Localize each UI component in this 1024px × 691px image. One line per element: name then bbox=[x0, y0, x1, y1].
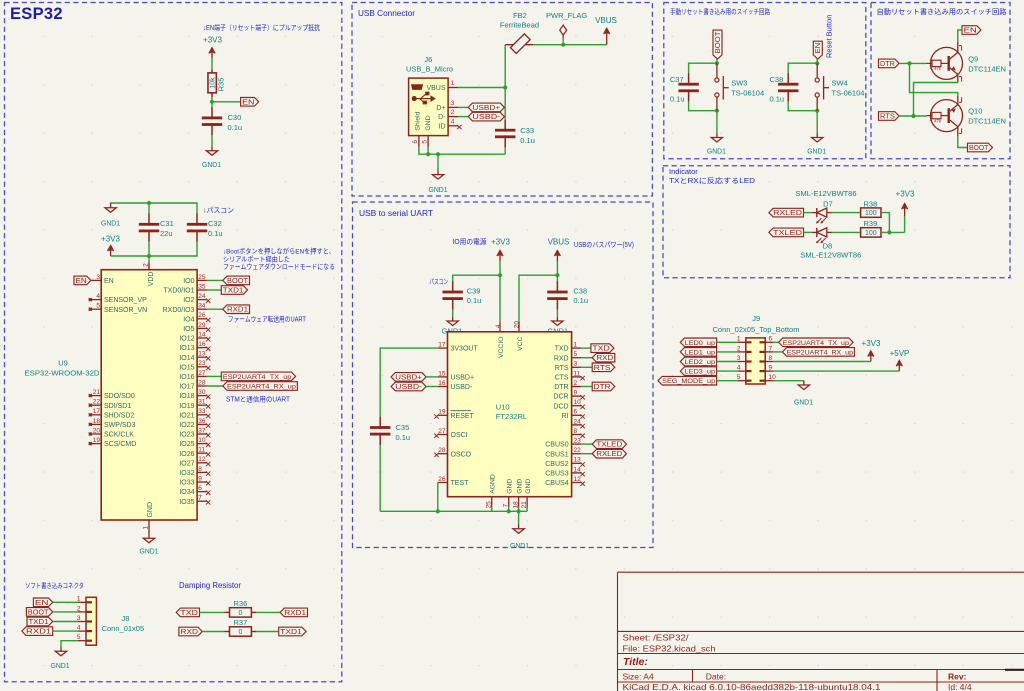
svg-text:13: 13 bbox=[198, 351, 206, 358]
U9 pin 35 TXD0/IO1 bbox=[197, 289, 207, 291]
svg-text:47k: 47k bbox=[934, 118, 942, 123]
svg-text:28: 28 bbox=[438, 447, 446, 454]
svg-text:LED1_up: LED1_up bbox=[685, 349, 716, 356]
J6 usb trident icon bbox=[412, 92, 435, 104]
capacitor C37 0.1u bbox=[688, 73, 690, 85]
svg-text:0.1u: 0.1u bbox=[467, 296, 482, 305]
title block page edge mark bbox=[1005, 669, 1024, 671]
svg-text:J6: J6 bbox=[424, 55, 432, 64]
U9 pin 33 IO21 bbox=[197, 414, 207, 416]
svg-text:1: 1 bbox=[574, 342, 578, 349]
svg-text:CTS: CTS bbox=[555, 375, 569, 382]
svg-text:D7: D7 bbox=[823, 199, 833, 208]
wire RXLED bbox=[581, 453, 592, 455]
svg-text:U10: U10 bbox=[496, 403, 510, 412]
capacitor C38 0.1u bbox=[787, 73, 789, 85]
U9 pin 10 IO25 bbox=[197, 443, 207, 445]
svg-text:EN: EN bbox=[964, 28, 977, 35]
ground GND1 (C30) bbox=[211, 147, 213, 151]
J8 pin 5 bbox=[78, 640, 86, 642]
svg-text:BOOT: BOOT bbox=[28, 609, 49, 616]
svg-text:CBUS4: CBUS4 bbox=[545, 480, 568, 487]
svg-text:Date:: Date: bbox=[706, 672, 726, 682]
wire J8 pin5 to ground bbox=[61, 641, 78, 647]
svg-text:Q10: Q10 bbox=[968, 107, 982, 116]
svg-text:Title:: Title: bbox=[623, 656, 648, 668]
J8 pin 1 bbox=[78, 601, 86, 603]
svg-text:IO用の電源: IO用の電源 bbox=[453, 237, 487, 246]
section box manual reset switch bbox=[664, 3, 866, 159]
svg-text:10: 10 bbox=[198, 437, 206, 444]
capacitor C30 0.1u bbox=[211, 102, 213, 107]
wire IO0 to BOOT bbox=[207, 279, 223, 281]
svg-text:C38: C38 bbox=[770, 75, 784, 84]
svg-text:RXD1: RXD1 bbox=[284, 610, 306, 617]
ground GND1 (C39) bbox=[452, 317, 454, 321]
svg-text:RXD: RXD bbox=[554, 355, 569, 362]
node indicator junction bbox=[887, 230, 891, 234]
svg-text:TXD: TXD bbox=[180, 610, 198, 617]
svg-text:USB Connector: USB Connector bbox=[358, 9, 415, 18]
U9 pin 4 SENSOR_VP bbox=[92, 299, 102, 301]
node switch bottom bbox=[815, 109, 819, 113]
U9 pin 22 SDI/SD1 bbox=[92, 404, 102, 406]
svg-text:D8: D8 bbox=[823, 242, 833, 251]
hier label USBD- (J6) bbox=[468, 112, 504, 121]
svg-text:GND1: GND1 bbox=[101, 219, 120, 228]
svg-text:9: 9 bbox=[574, 390, 578, 397]
svg-text:9: 9 bbox=[769, 365, 773, 372]
svg-text:ソフト書き込みコネクタ: ソフト書き込みコネクタ bbox=[25, 581, 84, 590]
svg-text:C30: C30 bbox=[228, 113, 242, 122]
svg-text:35: 35 bbox=[198, 283, 206, 290]
svg-text:1: 1 bbox=[929, 65, 932, 71]
svg-text:LED0_up: LED0_up bbox=[685, 340, 716, 347]
svg-text:2: 2 bbox=[143, 263, 150, 267]
U10 pin 8 NC bbox=[572, 434, 582, 436]
svg-text:7: 7 bbox=[198, 495, 202, 502]
svg-text:30: 30 bbox=[198, 389, 206, 396]
svg-text:IO17: IO17 bbox=[179, 384, 194, 391]
J9 pin 7 bbox=[765, 351, 773, 353]
section box USB to serial UART bbox=[353, 202, 654, 548]
wire IO17 to ESP2UART4_RX_up bbox=[207, 385, 223, 387]
global label DTR (U10) bbox=[592, 382, 615, 391]
wire TXLED bbox=[581, 443, 592, 445]
svg-text:5: 5 bbox=[96, 303, 100, 310]
svg-text:BOOT: BOOT bbox=[969, 145, 989, 152]
svg-text:11: 11 bbox=[198, 447, 205, 454]
svg-text:C31: C31 bbox=[160, 219, 174, 228]
svg-text:27: 27 bbox=[438, 428, 446, 435]
capacitor C31 22u bbox=[148, 203, 150, 213]
U10 pin 3 RTS bbox=[572, 366, 582, 368]
svg-text:GND1: GND1 bbox=[510, 541, 529, 550]
node VBUS vertical bbox=[503, 85, 507, 89]
U10 pin 27 OSCI bbox=[438, 434, 448, 436]
svg-text:GND1: GND1 bbox=[51, 661, 70, 670]
svg-text:D+: D+ bbox=[436, 105, 445, 112]
wire VDD bbox=[148, 256, 150, 263]
U10 pin 6 RI bbox=[572, 414, 582, 416]
global label TXD (U10) bbox=[591, 344, 614, 353]
U10 pin 23 CBUS0 bbox=[572, 443, 582, 445]
U10 pin 13 CBUS2 bbox=[572, 462, 582, 464]
U9 pin 19 SCS/CMD bbox=[92, 443, 102, 445]
wire +3V3 to VCCIO bbox=[499, 261, 501, 322]
wire R36 to RXD1 bbox=[251, 611, 256, 613]
svg-text:1: 1 bbox=[929, 117, 932, 123]
svg-text:ファームウェア転送用のUART: ファームウェア転送用のUART bbox=[228, 315, 307, 324]
svg-text:C32: C32 bbox=[208, 219, 222, 228]
svg-text:13: 13 bbox=[574, 457, 582, 464]
global label RXD (R37) bbox=[179, 627, 202, 636]
U10 pin 7 GND bbox=[508, 497, 510, 507]
resistor R39 100 bbox=[861, 228, 881, 237]
svg-text:8: 8 bbox=[198, 466, 202, 473]
capacitor C39 0.1u bbox=[452, 281, 454, 293]
wire junction to EN label bbox=[212, 101, 241, 103]
U10 pin 25 AGND bbox=[491, 497, 493, 507]
svg-text:SENSOR_VP: SENSOR_VP bbox=[104, 297, 147, 304]
node test rail bbox=[436, 509, 440, 513]
power +3V3 (indicator) bbox=[904, 216, 906, 232]
J9 pin 10 bbox=[765, 380, 773, 382]
wire to gnd bbox=[716, 111, 718, 134]
svg-text:R37: R37 bbox=[234, 618, 248, 627]
section box ESP32 (left) bbox=[5, 3, 342, 682]
svg-text:RXD1: RXD1 bbox=[227, 307, 248, 314]
svg-text:23: 23 bbox=[574, 438, 582, 445]
svg-text:TXD: TXD bbox=[555, 346, 569, 353]
svg-text:IO27: IO27 bbox=[179, 460, 194, 467]
U10 pin 22 CBUS1 bbox=[572, 453, 582, 455]
svg-text:0: 0 bbox=[238, 610, 242, 617]
svg-text:USBのバスパワー(5V): USBのバスパワー(5V) bbox=[574, 241, 634, 249]
wire bypass top rail bbox=[111, 203, 197, 214]
svg-text:RESET: RESET bbox=[451, 413, 475, 420]
U10 pin 10 DCD bbox=[572, 405, 582, 407]
U9 pin 16 IO13 bbox=[197, 347, 207, 349]
global label TXLED (U10) bbox=[592, 440, 626, 449]
U9 pin 7 IO35 bbox=[197, 500, 207, 502]
global label TXD (R36) bbox=[176, 608, 199, 617]
svg-text:IO26: IO26 bbox=[179, 451, 194, 458]
U9 pin 5 SENSOR_VN bbox=[92, 308, 102, 310]
svg-text:Conn_01x05: Conn_01x05 bbox=[102, 624, 145, 633]
svg-text:IO12: IO12 bbox=[179, 336, 194, 343]
node EN junction bbox=[210, 100, 214, 104]
wire DTR to Q10 emitter bbox=[910, 63, 958, 96]
svg-text:6: 6 bbox=[769, 336, 773, 343]
svg-text:OSCO: OSCO bbox=[451, 451, 472, 458]
svg-text:5: 5 bbox=[574, 351, 578, 358]
ground GND1 (switch) bbox=[816, 133, 818, 137]
svg-text:手動リセット書き込み用のスイッチ回路: 手動リセット書き込み用のスイッチ回路 bbox=[670, 7, 770, 16]
svg-text:R36: R36 bbox=[234, 599, 248, 608]
wire D- to USBD- bbox=[458, 116, 468, 118]
svg-text:パスコン: パスコン bbox=[429, 278, 448, 286]
svg-text:24: 24 bbox=[198, 293, 206, 300]
svg-text:TXD1: TXD1 bbox=[29, 619, 49, 626]
svg-text:C39: C39 bbox=[467, 287, 481, 296]
svg-text:IO4: IO4 bbox=[183, 316, 194, 323]
node gnd7 rail bbox=[507, 509, 511, 513]
svg-text:ESP2UART4_RX_up: ESP2UART4_RX_up bbox=[227, 384, 296, 391]
U9 pin 6 IO34 bbox=[197, 491, 207, 493]
wire IO1 to TXD1 bbox=[207, 289, 221, 291]
svg-text:AGND: AGND bbox=[490, 474, 497, 494]
svg-text:ID: ID bbox=[439, 123, 446, 130]
svg-text:22u: 22u bbox=[160, 229, 173, 238]
svg-text:TS-06104: TS-06104 bbox=[832, 89, 865, 98]
svg-text:6: 6 bbox=[412, 140, 419, 144]
svg-text:TXD1: TXD1 bbox=[223, 288, 244, 295]
U10 pin 4 VCCIO bbox=[499, 322, 501, 332]
capacitor C38 0.1u bbox=[556, 281, 558, 293]
svg-text:+5VP: +5VP bbox=[890, 349, 910, 358]
wire RXLED to D7 bbox=[804, 212, 813, 214]
svg-text:SW4: SW4 bbox=[832, 79, 848, 88]
svg-text:10: 10 bbox=[574, 399, 582, 406]
svg-text:J9: J9 bbox=[752, 314, 760, 323]
global label DTR (Q9) bbox=[879, 59, 900, 68]
U10 pin 17 3V3OUT bbox=[438, 347, 448, 349]
svg-text:RTS: RTS bbox=[555, 365, 569, 372]
svg-text:SENSOR_VN: SENSOR_VN bbox=[104, 307, 147, 314]
svg-text:IO0: IO0 bbox=[183, 278, 194, 285]
svg-text:14: 14 bbox=[198, 331, 206, 338]
svg-text:SML-E12VBWT86: SML-E12VBWT86 bbox=[796, 189, 857, 198]
svg-text:IO2: IO2 bbox=[183, 297, 194, 304]
J6 usb plug icon bbox=[412, 85, 423, 90]
wire vbus vertical bbox=[504, 45, 506, 119]
svg-text:IO35: IO35 bbox=[179, 499, 194, 506]
U9 pin 24 IO2 bbox=[197, 299, 207, 301]
wire J9 pin8 to +3V3 bbox=[773, 361, 871, 363]
global label RTS (Q10) bbox=[879, 112, 900, 121]
svg-text:VBUS: VBUS bbox=[595, 16, 617, 25]
svg-text:21: 21 bbox=[93, 389, 101, 396]
svg-text:2: 2 bbox=[574, 380, 578, 387]
node vcc bbox=[555, 273, 559, 277]
svg-text:3V3OUT: 3V3OUT bbox=[451, 346, 479, 353]
svg-text:TS-06104: TS-06104 bbox=[731, 89, 764, 98]
U9 pin 9 IO33 bbox=[197, 481, 207, 483]
hier label LED0_up bbox=[680, 338, 716, 347]
wire TXLED to D8 bbox=[804, 231, 813, 233]
svg-text:100: 100 bbox=[865, 230, 877, 237]
U10 pin 14 CBUS3 bbox=[572, 472, 582, 474]
node DTR junction bbox=[907, 61, 911, 65]
svg-text:47k: 47k bbox=[934, 66, 942, 71]
svg-text:23: 23 bbox=[198, 360, 206, 367]
svg-text:FT232RL: FT232RL bbox=[496, 412, 527, 421]
svg-text:8: 8 bbox=[574, 428, 578, 435]
svg-text:IO23: IO23 bbox=[179, 432, 194, 439]
global label RXD1 (J8) bbox=[22, 627, 53, 636]
svg-text:USBD+: USBD+ bbox=[472, 105, 500, 112]
svg-text:Indicator: Indicator bbox=[669, 167, 698, 176]
svg-text:IO22: IO22 bbox=[179, 422, 194, 429]
U10 pin 1 TXD bbox=[572, 347, 582, 349]
U9 pin 23 IO15 bbox=[197, 366, 207, 368]
wire Q9 emitter to RTS bbox=[957, 74, 959, 82]
connector J6 body bbox=[409, 78, 449, 136]
global label BOOT (switch) bbox=[713, 30, 722, 59]
hier label ESP2UART4_RX_up (U9) bbox=[223, 382, 298, 391]
svg-text:ESP2UART4_TX_up: ESP2UART4_TX_up bbox=[223, 374, 292, 381]
svg-text:14: 14 bbox=[574, 466, 582, 473]
svg-text:RXD: RXD bbox=[596, 355, 613, 362]
U9 pin 29 IO5 bbox=[197, 327, 207, 329]
node switch bottom bbox=[715, 109, 719, 113]
svg-text:1: 1 bbox=[451, 80, 455, 87]
svg-text:27: 27 bbox=[198, 370, 206, 377]
J9 pin 4 bbox=[738, 370, 746, 372]
svg-text:Conn_02x05_Top_Bottom: Conn_02x05_Top_Bottom bbox=[713, 325, 800, 334]
svg-text:16: 16 bbox=[198, 341, 206, 348]
svg-text:DTC114EN: DTC114EN bbox=[968, 117, 1006, 126]
svg-text:SCS/CMD: SCS/CMD bbox=[104, 441, 136, 448]
ground GND1 (J9) bbox=[803, 381, 805, 385]
J8 pin 2 bbox=[78, 611, 86, 613]
svg-text:17: 17 bbox=[438, 342, 446, 349]
svg-text:USBD+: USBD+ bbox=[451, 375, 475, 382]
hier label SEG_MODE_up bbox=[658, 376, 717, 385]
svg-text:17: 17 bbox=[93, 408, 101, 415]
wire D7 to R38 bbox=[832, 212, 861, 214]
svg-text:+3V3: +3V3 bbox=[203, 36, 222, 45]
wire bottom branch bbox=[689, 102, 717, 111]
capacitor C35 0.1u bbox=[379, 417, 381, 429]
svg-text:SDI/SD1: SDI/SD1 bbox=[104, 403, 131, 410]
svg-text:J8: J8 bbox=[122, 614, 130, 623]
global label RXD1 (R36) bbox=[280, 608, 307, 617]
svg-text:16: 16 bbox=[438, 380, 446, 387]
switch SW3 TS-06104 bbox=[716, 63, 718, 78]
svg-text:6: 6 bbox=[574, 409, 578, 416]
svg-text:100: 100 bbox=[865, 210, 877, 217]
wire bead to VBUS arrow bbox=[533, 44, 607, 46]
capacitor C32 0.1u bbox=[196, 213, 198, 225]
wire IO16 to ESP2UART4_TX_up bbox=[207, 375, 221, 377]
svg-text:TXD0/IO1: TXD0/IO1 bbox=[163, 288, 194, 295]
U10 pin 5 RXD bbox=[572, 357, 582, 359]
global label EN (J8) bbox=[33, 598, 52, 607]
wire DTR to Q9 base bbox=[899, 62, 926, 64]
wire R35 to junction bbox=[211, 97, 213, 103]
svg-text:GND1: GND1 bbox=[794, 398, 813, 407]
U10 pin 20 VCC bbox=[518, 322, 520, 332]
svg-text:ESP2UART4_TX_up: ESP2UART4_TX_up bbox=[783, 340, 849, 347]
wire shield gnd rail bbox=[419, 147, 505, 154]
svg-text:IO19: IO19 bbox=[179, 403, 194, 410]
U9 pin 21 SDO/SD0 bbox=[92, 395, 102, 397]
wire RTS bbox=[581, 366, 592, 368]
capacitor C33 0.1u bbox=[504, 119, 506, 131]
svg-text:ESP32: ESP32 bbox=[10, 5, 63, 23]
U9 pin 26 IO4 bbox=[197, 318, 207, 320]
svg-text:CBUS2: CBUS2 bbox=[545, 461, 568, 468]
svg-text:20: 20 bbox=[93, 427, 101, 434]
global label EN bbox=[241, 98, 259, 107]
J9 pin 5 bbox=[738, 380, 746, 382]
wire DTR bbox=[581, 386, 592, 388]
svg-text:ESP32-WROOM-32D: ESP32-WROOM-32D bbox=[25, 369, 101, 378]
wire C35 to rail bbox=[379, 445, 381, 511]
wire TXD bbox=[581, 347, 591, 349]
U9 pin 28 IO17 bbox=[197, 385, 207, 387]
svg-text:GND: GND bbox=[507, 479, 514, 494]
svg-text:22: 22 bbox=[93, 399, 101, 406]
svg-text:IO25: IO25 bbox=[179, 441, 194, 448]
svg-text:USB to serial UART: USB to serial UART bbox=[359, 209, 433, 218]
node switch top bbox=[715, 61, 719, 65]
node pwr flag bbox=[561, 43, 565, 47]
svg-text:IO34: IO34 bbox=[179, 489, 194, 496]
J9 pin 3 bbox=[738, 361, 746, 363]
svg-text:CBUS0: CBUS0 bbox=[545, 442, 568, 449]
hier label LED3_up bbox=[680, 367, 716, 376]
transistor Q9 DTC114EN bbox=[931, 47, 963, 79]
node C31 bottom bbox=[147, 254, 151, 258]
node RTS junction bbox=[911, 114, 915, 118]
node vccio bbox=[498, 273, 502, 277]
resistor R37 0 bbox=[230, 627, 252, 636]
wire vcc bbox=[519, 275, 557, 322]
U9 pin 27 IO16 bbox=[197, 375, 207, 377]
wire BOOT to junction bbox=[716, 59, 718, 66]
svg-text:0.1u: 0.1u bbox=[573, 296, 588, 305]
global label TXD1 (J8) bbox=[27, 617, 53, 626]
svg-text:USBD-: USBD- bbox=[451, 384, 473, 391]
svg-text:GND: GND bbox=[516, 479, 523, 494]
svg-text:SW3: SW3 bbox=[731, 79, 747, 88]
svg-text:0.1u: 0.1u bbox=[520, 136, 535, 145]
svg-text:24: 24 bbox=[574, 418, 582, 425]
svg-text:LED3_up: LED3_up bbox=[685, 369, 716, 376]
svg-text:SWP/SD3: SWP/SD3 bbox=[104, 422, 136, 429]
svg-text:+3V3: +3V3 bbox=[862, 339, 881, 348]
svg-text:GND: GND bbox=[425, 115, 432, 130]
wire EN to Q9 collector bbox=[958, 30, 962, 42]
svg-text:11: 11 bbox=[574, 370, 581, 377]
global label EN (switch) bbox=[813, 41, 822, 59]
ground GND1 (C38) bbox=[556, 317, 558, 321]
svg-text:19: 19 bbox=[438, 409, 446, 416]
U9 pin 20 SCK/CLK bbox=[92, 433, 102, 435]
global label RTS (U10) bbox=[592, 363, 615, 372]
svg-text:IO5: IO5 bbox=[183, 326, 194, 333]
resistor R35 10k bbox=[211, 70, 213, 73]
svg-text:IO16: IO16 bbox=[179, 374, 194, 381]
svg-text:SDO/SD0: SDO/SD0 bbox=[104, 393, 135, 400]
svg-text:CBUS1: CBUS1 bbox=[545, 451, 568, 458]
op-amp U10 body bbox=[448, 332, 572, 497]
U10 pin 15 USBD+ bbox=[438, 376, 448, 378]
svg-text:26: 26 bbox=[438, 476, 446, 483]
svg-text:TXとRXに反応するLED: TXとRXに反応するLED bbox=[669, 176, 755, 185]
svg-text:C33: C33 bbox=[520, 126, 534, 135]
svg-text:6: 6 bbox=[198, 485, 202, 492]
U10 pin 2 DTR bbox=[572, 386, 582, 388]
global label RXD1 (U9) bbox=[223, 305, 250, 314]
svg-text:EN: EN bbox=[242, 99, 254, 106]
section box Indicator bbox=[663, 166, 1010, 278]
wire +3V3 to R35 bbox=[211, 58, 213, 69]
svg-text:USBD-: USBD- bbox=[472, 114, 501, 121]
